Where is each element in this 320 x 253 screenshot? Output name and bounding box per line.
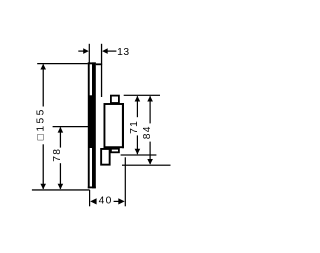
dim 155 down arrow [40,184,46,190]
bottom ext line [32,189,90,190]
dim 13 left ext line [89,44,90,63]
dim 40 right arrowhead [118,198,124,204]
dim 71 down arrow [135,149,141,155]
dim 78 line upper seg [60,127,61,147]
dim 13 right arrowhead [102,48,108,54]
dim 40 right seg [114,201,119,202]
plate bottom edge [88,187,96,189]
dim 71 up arrow [135,96,141,102]
dim 40 left ext line [89,190,90,206]
svg-text:71: 71 [129,120,140,134]
dim 78 down arrow [58,184,64,190]
top tab [111,96,119,103]
dim 155 line lower seg [43,144,44,189]
dim 84 line lower seg [150,142,151,164]
dim 84 down arrow [147,159,153,165]
dim 71 line lower seg [137,135,138,154]
dim 13 right tail [108,51,117,52]
dim 155 top ext line [37,63,88,64]
sleeve front line [101,44,102,97]
dim 71 bottom ext line [121,154,157,155]
dim 40 right ext line [125,157,126,206]
dim 71 top ext line [124,95,160,96]
dim 13 left arrowhead [83,48,89,54]
plate back line [88,62,90,188]
svg-text:40: 40 [99,196,113,207]
bottom tab [111,149,119,153]
dim 155 line upper seg [43,65,44,107]
dim 84 line upper seg [150,96,151,123]
plate top edge [88,62,96,64]
plate front slab [92,62,96,188]
svg-text:84: 84 [142,125,153,139]
dim 13 left tail [78,51,84,52]
dim 40 left arrowhead [90,198,96,204]
sleeve top tick [96,63,102,65]
svg-text:□155: □155 [35,107,46,140]
dim 155 up arrow [40,64,46,70]
cartridge fill [90,95,93,148]
dim 78 up arrow [58,127,64,133]
dim 71 line upper seg [137,96,138,117]
dim 84 bottom ext line [122,165,171,166]
dim 78 line lower seg [60,163,61,189]
knob body [104,104,123,147]
dim 84 up arrow [147,96,153,102]
dim 78 mid ext line [53,126,89,127]
svg-text:13: 13 [117,47,129,58]
knob front edge [122,103,124,148]
svg-text:78: 78 [52,148,63,162]
sleeve below knob [101,149,110,165]
